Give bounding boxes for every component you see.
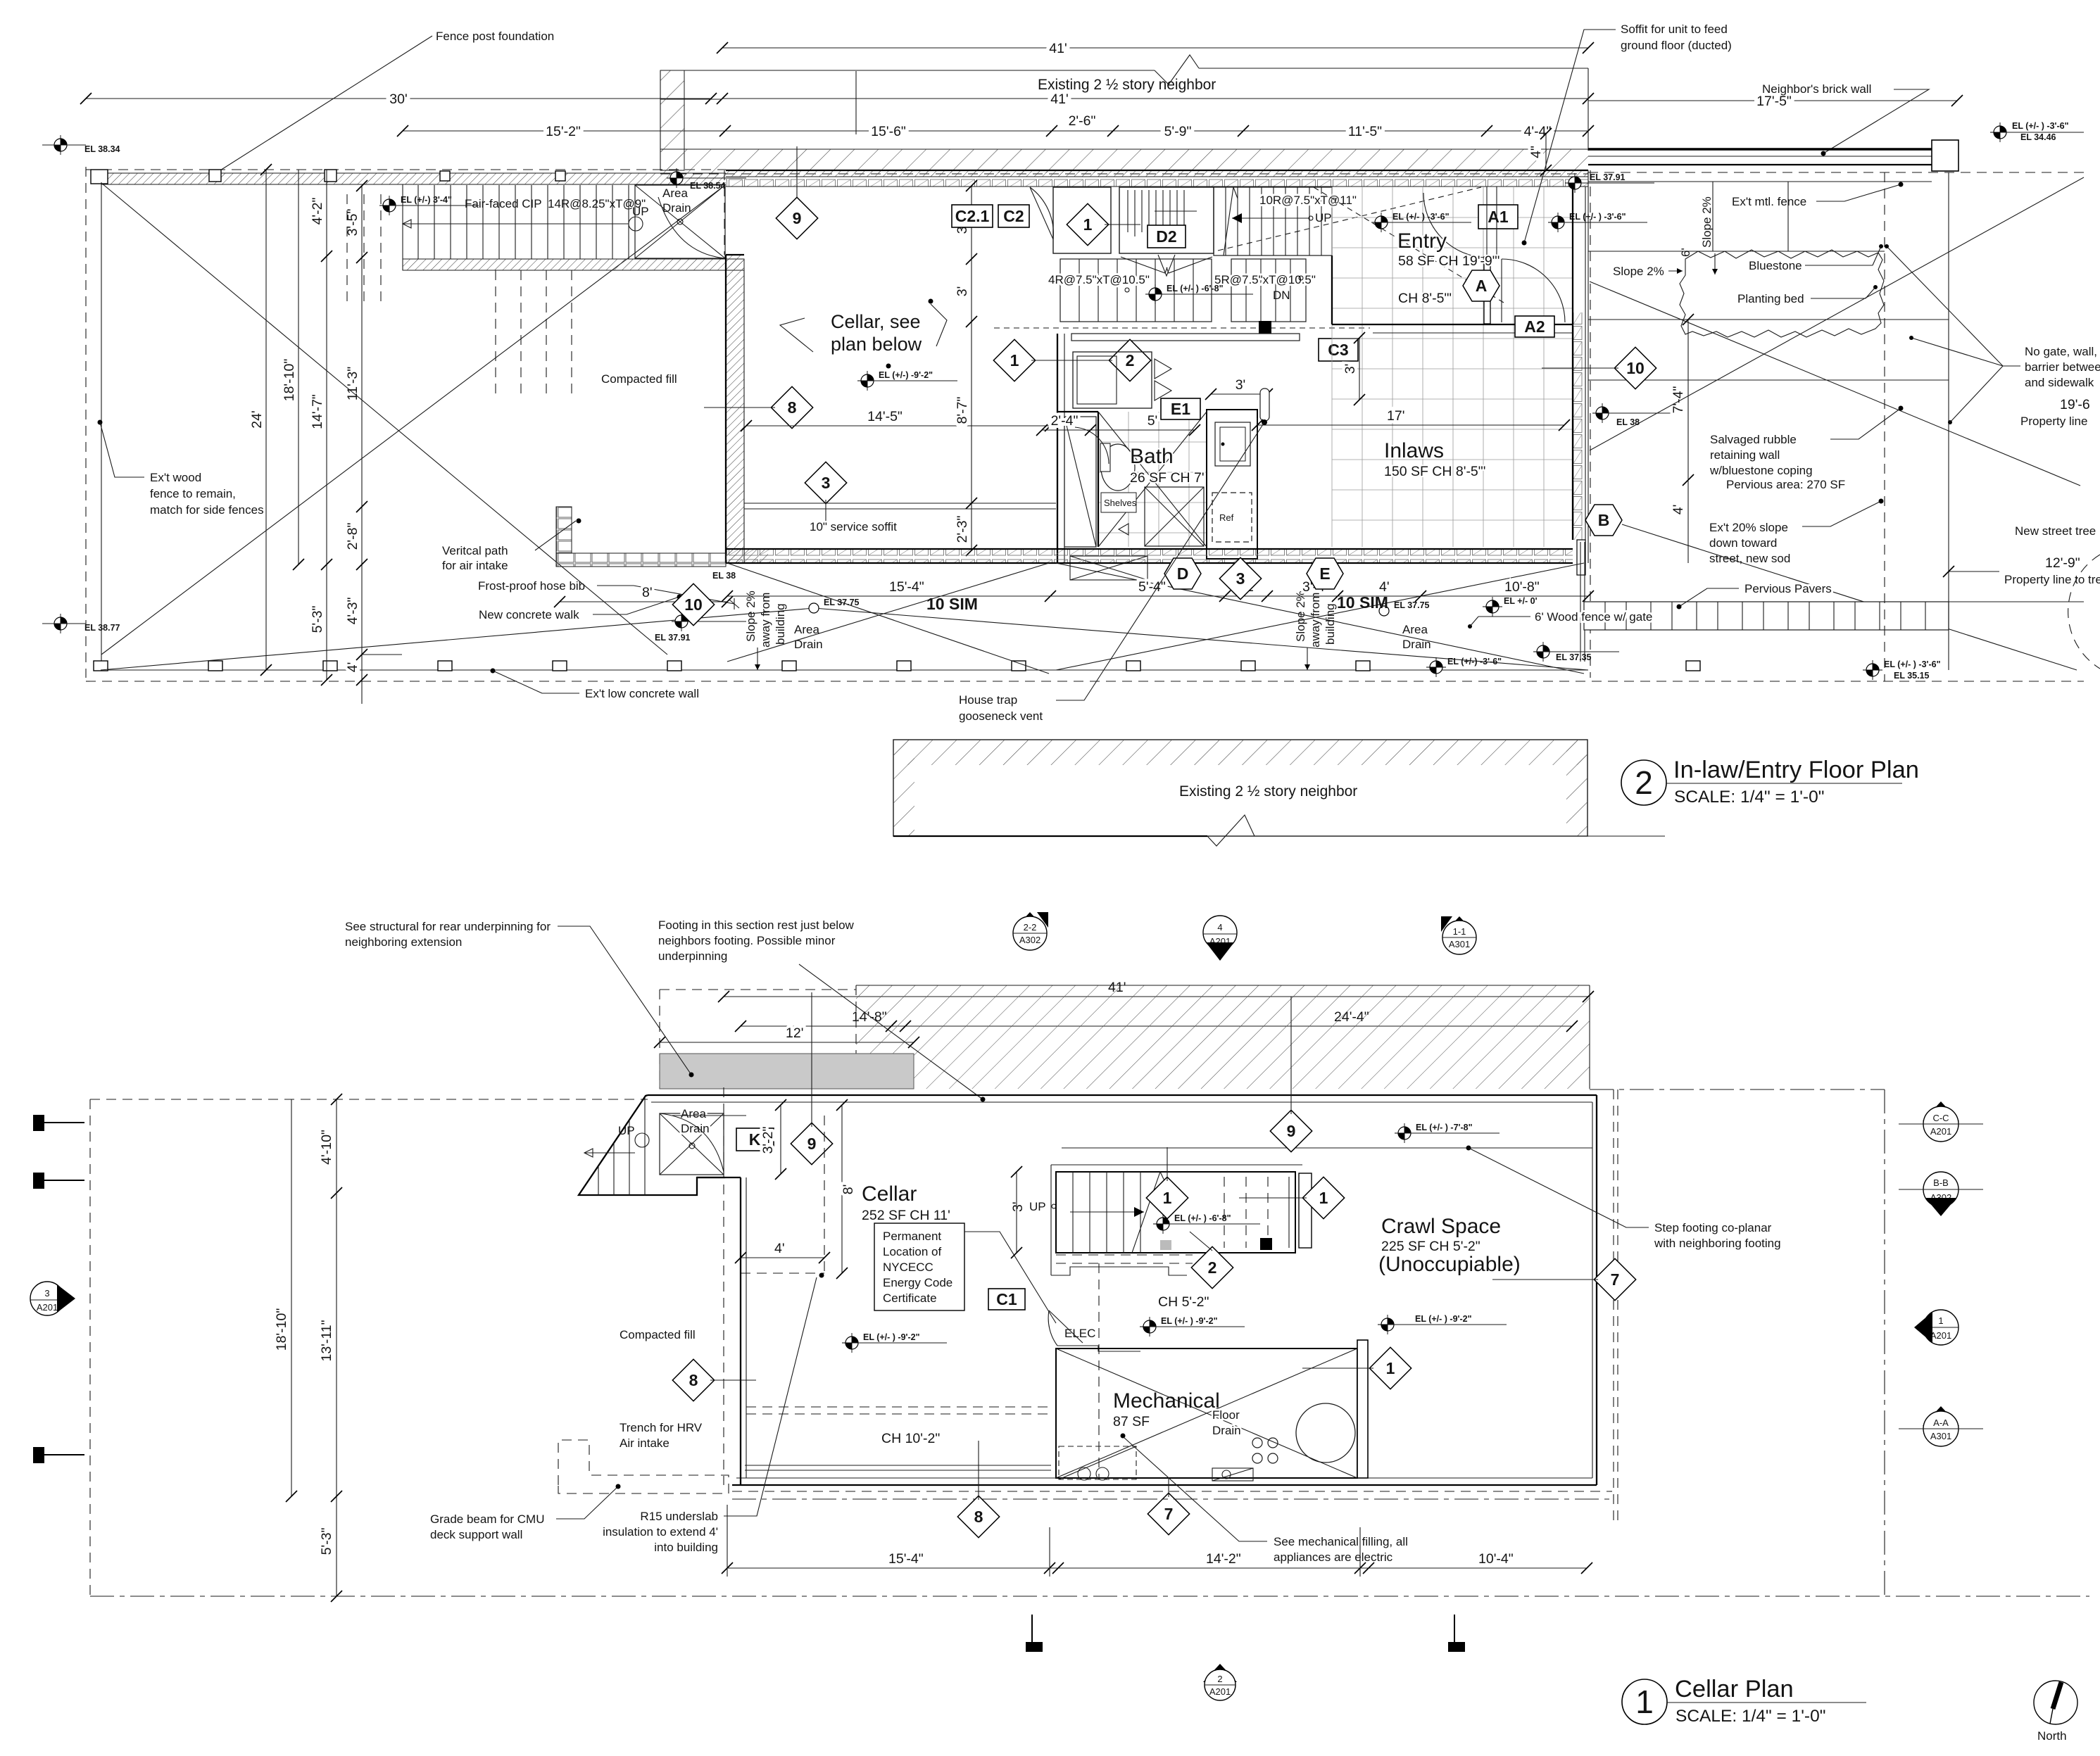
entry labels — [1397, 229, 1499, 306]
svg-text:Area: Area — [681, 1107, 706, 1120]
svg-text:10: 10 — [684, 595, 703, 614]
svg-text:87 SF: 87 SF — [1113, 1414, 1150, 1429]
svg-text:Crawl Space: Crawl Space — [1381, 1215, 1501, 1238]
svg-text:4': 4' — [774, 1241, 785, 1256]
svg-text:Certificate: Certificate — [883, 1291, 937, 1305]
1 diamonds at stair — [1146, 1147, 1188, 1219]
3 diamond marker — [805, 462, 846, 521]
north yard wall strip — [101, 173, 726, 184]
frost-proof hose bib label — [478, 579, 739, 609]
svg-text:A301: A301 — [1930, 1431, 1951, 1441]
svg-text:House trap: House trap — [959, 693, 1017, 707]
svg-text:11'-5": 11'-5" — [1348, 124, 1382, 139]
svg-text:4: 4 — [1217, 922, 1222, 933]
svg-text:A: A — [1476, 277, 1488, 295]
8 diamond cellar — [672, 1359, 756, 1401]
svg-text:EL 37.91: EL 37.91 — [1590, 172, 1626, 182]
R15 label — [603, 1277, 817, 1554]
svg-text:4": 4" — [1528, 146, 1544, 158]
svg-text:Pervious area: 270 SF: Pervious area: 270 SF — [1726, 478, 1845, 491]
svg-text:A201: A201 — [1209, 1686, 1231, 1697]
svg-text:Veritcal path: Veritcal path — [442, 544, 508, 557]
svg-text:7: 7 — [1164, 1505, 1174, 1523]
svg-text:EL 37.35: EL 37.35 — [1556, 652, 1592, 662]
bath / closet walls — [1057, 334, 1300, 580]
EL -6'-8 stair — [1153, 1213, 1260, 1234]
EL benchmarks entry — [1371, 212, 1471, 232]
entry stair trapezoid (bottom plan) — [579, 1095, 725, 1195]
svg-text:15'-2": 15'-2" — [546, 124, 581, 139]
svg-text:D2: D2 — [1156, 227, 1176, 246]
kitchen tall unit + Ref — [1207, 410, 1257, 559]
svg-text:CH 10'-2": CH 10'-2" — [881, 1431, 940, 1446]
svg-text:EL 38: EL 38 — [712, 571, 736, 581]
no gate label — [1885, 244, 2100, 424]
svg-text:Property line to tree bed: Property line to tree bed — [2004, 573, 2100, 586]
svg-text:match for side fences: match for side fences — [150, 503, 264, 517]
svg-text:Permanent: Permanent — [883, 1230, 941, 1243]
svg-text:2: 2 — [1217, 1674, 1222, 1684]
svg-text:Bath: Bath — [1130, 445, 1174, 468]
svg-text:15'-4": 15'-4" — [889, 579, 924, 595]
svg-text:10" service soffit: 10" service soffit — [810, 520, 897, 533]
svg-text:E: E — [1319, 564, 1330, 583]
svg-text:Drain: Drain — [681, 1122, 710, 1135]
dashed offset rect + 4' 8' dims — [735, 1099, 856, 1279]
svg-text:Mechanical: Mechanical — [1113, 1389, 1220, 1413]
svg-text:Drain: Drain — [662, 201, 691, 215]
svg-text:building: building — [774, 603, 787, 645]
svg-text:New concrete walk: New concrete walk — [479, 608, 579, 621]
bath fixtures: toilet + shower X — [1075, 412, 1207, 547]
svg-text:EL 38.54: EL 38.54 — [690, 181, 726, 191]
grade beam label — [430, 1484, 621, 1542]
closet C2.1 / C2 boxes — [952, 205, 1029, 227]
svg-text:street, new sod: street, new sod — [1709, 552, 1790, 565]
svg-text:1: 1 — [1083, 215, 1093, 234]
svg-text:3: 3 — [44, 1288, 49, 1299]
svg-text:EL 37.75: EL 37.75 — [1394, 600, 1430, 610]
svg-text:Slope 2%: Slope 2% — [1294, 590, 1307, 642]
svg-text:41': 41' — [1050, 91, 1068, 107]
svg-text:A2: A2 — [1524, 317, 1545, 336]
interior vertical dim chain (3'-6 / 3' / 8'-7 / 2'-3) — [955, 180, 977, 556]
existing neighbor building outline (top) — [660, 55, 1588, 170]
svg-text:NYCECC: NYCECC — [883, 1261, 933, 1274]
svg-text:Area: Area — [662, 187, 688, 200]
svg-text:3': 3' — [1343, 364, 1358, 374]
hexagon markers D / 3 / E — [1164, 558, 1201, 589]
svg-text:In-law/Entry Floor Plan: In-law/Entry Floor Plan — [1673, 757, 1919, 783]
svg-text:SCALE: 1/4" = 1'-0": SCALE: 1/4" = 1'-0" — [1674, 788, 1824, 807]
svg-text:ELEC: ELEC — [1064, 1327, 1095, 1340]
svg-text:8: 8 — [788, 398, 797, 417]
svg-text:CH 5'-2": CH 5'-2" — [1158, 1294, 1209, 1310]
svg-text:EL 37.91: EL 37.91 — [655, 633, 691, 643]
svg-text:24': 24' — [249, 410, 265, 428]
exterior concrete stair (Fair-faced CIP) — [403, 184, 744, 270]
svg-text:EL (+/-) 3'-4": EL (+/-) 3'-4" — [401, 195, 452, 205]
svg-text:with neighboring footing: with neighboring footing — [1654, 1237, 1781, 1250]
building south wall band — [726, 549, 1573, 563]
svg-text:Cellar: Cellar — [862, 1182, 917, 1206]
wall btwn stair zone and inlaws — [1331, 255, 1333, 324]
svg-text:C1: C1 — [996, 1290, 1017, 1308]
svg-text:10'-4": 10'-4" — [1478, 1551, 1514, 1567]
svg-text:EL 34.46: EL 34.46 — [2020, 132, 2056, 142]
svg-text:Drain: Drain — [1402, 638, 1431, 651]
svg-text:away from: away from — [1309, 593, 1322, 648]
insulation dashed lines — [746, 1255, 1193, 1414]
svg-text:R15 underslab: R15 underslab — [640, 1510, 718, 1523]
entry south wall — [1332, 324, 1573, 333]
svg-text:C3: C3 — [1328, 341, 1348, 359]
svg-text:Ex't low concrete wall: Ex't low concrete wall — [585, 687, 699, 700]
svg-text:7'-4": 7'-4" — [1671, 386, 1686, 414]
7 diamond bottom — [1148, 1478, 1189, 1535]
svg-text:EL 38: EL 38 — [1616, 417, 1640, 427]
svg-text:A-A: A-A — [1933, 1417, 1949, 1428]
building north wall band: hatch + glass block — [726, 170, 1588, 187]
EL -9'-2 cellar — [842, 1332, 947, 1353]
svg-text:Ref: Ref — [1219, 512, 1234, 523]
svg-text:D: D — [1177, 564, 1189, 583]
A hexagon — [1463, 270, 1499, 301]
1 diamond leader (closet) — [1067, 203, 1140, 245]
svg-text:3': 3' — [1236, 377, 1246, 393]
svg-text:Frost-proof hose bib: Frost-proof hose bib — [478, 579, 585, 593]
svg-text:12'-9": 12'-9" — [2045, 555, 2080, 571]
neighbor's brick wall — [1588, 82, 2084, 172]
svg-text:w/bluestone coping: w/bluestone coping — [1709, 464, 1813, 477]
svg-text:Existing 2 ½ story neighbor: Existing 2 ½ story neighbor — [1179, 783, 1357, 800]
title 1: Cellar Plan — [1622, 1676, 1866, 1726]
svg-text:41': 41' — [1049, 41, 1067, 56]
svg-text:A201: A201 — [1930, 1330, 1951, 1341]
yard horizontal lines — [1588, 182, 1949, 380]
svg-text:UP: UP — [1315, 211, 1332, 225]
closet at head of cellar stair — [1030, 187, 1111, 253]
svg-text:fence to remain,: fence to remain, — [150, 487, 236, 500]
tile grid: entry + inlaws — [1332, 187, 1573, 547]
8 diamond bottom — [957, 1441, 999, 1538]
svg-text:17': 17' — [1387, 408, 1404, 424]
walkway slope diagonals + area drains — [101, 563, 1588, 674]
left yard diagonal X — [101, 183, 667, 655]
dimension row 30' / 41' / 17'-5 — [80, 91, 1963, 109]
dimension row 41' overall — [717, 41, 1594, 56]
svg-text:A301: A301 — [1449, 939, 1470, 949]
svg-text:Ex't wood: Ex't wood — [150, 471, 201, 484]
planting bed jagged outline — [1680, 244, 1884, 337]
cellar opening note — [780, 299, 947, 369]
fence post foundation label — [213, 30, 555, 177]
svg-text:Energy Code: Energy Code — [883, 1276, 952, 1289]
soffit label — [1522, 23, 1732, 246]
svg-text:building: building — [1323, 603, 1337, 645]
svg-text:Cellar, see: Cellar, see — [831, 311, 921, 332]
svg-text:2-2: 2-2 — [1024, 922, 1037, 933]
svg-text:4': 4' — [1379, 579, 1390, 595]
svg-text:A201: A201 — [1930, 1126, 1951, 1137]
svg-text:See structural for rear underp: See structural for rear underpinning for — [345, 920, 551, 933]
svg-text:A302: A302 — [1019, 935, 1040, 945]
svg-text:1: 1 — [1319, 1189, 1328, 1207]
svg-text:EL (+/-) -3'-6": EL (+/-) -3'-6" — [1447, 657, 1502, 667]
svg-text:North: North — [2037, 1729, 2067, 1743]
see mechanical label — [1124, 1437, 1408, 1564]
svg-text:1: 1 — [1010, 351, 1019, 369]
2 diamond below stair — [1190, 1232, 1233, 1289]
9 diamond (crawl) — [1270, 997, 1312, 1152]
svg-text:5'-9": 5'-9" — [1164, 124, 1192, 139]
svg-text:Fence post foundation: Fence post foundation — [436, 30, 554, 43]
svg-text:12': 12' — [786, 1025, 803, 1041]
svg-text:K: K — [749, 1130, 761, 1149]
2/A201 marker bottom — [1203, 1664, 1237, 1700]
8 diamond marker + leader — [704, 386, 813, 428]
svg-text:EL (+/- ) -9'-2": EL (+/- ) -9'-2" — [1415, 1314, 1472, 1324]
CMU deck support wall (left of building) — [556, 507, 726, 567]
south low concrete wall + posts + property dash — [86, 661, 2084, 681]
EL 38.54 benchmark — [667, 168, 746, 191]
svg-text:1: 1 — [1163, 1189, 1172, 1207]
svg-text:Existing 2 ½ story neighbor: Existing 2 ½ story neighbor — [1038, 77, 1216, 93]
svg-text:Pervious Pavers: Pervious Pavers — [1744, 582, 1832, 595]
svg-text:C2.1: C2.1 — [955, 207, 990, 225]
new street tree + tree bed — [1943, 524, 2100, 669]
svg-text:8: 8 — [974, 1508, 983, 1526]
svg-text:E1: E1 — [1171, 400, 1190, 418]
EL markers right bottom — [1483, 596, 1538, 617]
svg-text:ground floor (ducted): ground floor (ducted) — [1621, 39, 1732, 52]
salvaged rubble label — [1709, 406, 1904, 478]
left margin markers bottom plan — [30, 1116, 84, 1463]
svg-text:26 SF CH 7': 26 SF CH 7' — [1130, 470, 1205, 486]
crawl space labels — [1378, 1215, 1521, 1276]
left vertical dims bottom plan — [274, 1094, 342, 1602]
grey slab (rear underpinning) — [660, 1054, 914, 1089]
bath tile grid — [1098, 412, 1207, 547]
slope annotations rotated — [744, 590, 1337, 670]
step footing label — [1469, 1148, 1781, 1250]
west property line + existing wood fence — [85, 167, 87, 678]
svg-text:Slope 2%: Slope 2% — [1700, 196, 1714, 248]
svg-text:Ex't 20% slope: Ex't 20% slope — [1709, 521, 1788, 534]
svg-text:Drain: Drain — [1212, 1424, 1241, 1437]
double doors D2 — [1121, 255, 1212, 276]
svg-text:2'-3": 2'-3" — [955, 516, 970, 543]
svg-text:No gate, wall, or o: No gate, wall, or o — [2025, 345, 2100, 358]
interior stair DN (10R) — [1214, 187, 1357, 255]
ex't 20% slope label — [1709, 499, 1884, 566]
svg-text:Shelves: Shelves — [1104, 498, 1137, 508]
svg-text:into building: into building — [654, 1541, 718, 1554]
building west wall (hatched) — [724, 170, 744, 563]
svg-text:8': 8' — [841, 1185, 856, 1195]
svg-text:Drain: Drain — [794, 638, 823, 651]
pervious pavers strip — [1584, 582, 1949, 630]
neighbor footprint hatch band — [660, 985, 1590, 1089]
svg-text:Grade beam for CMU: Grade beam for CMU — [430, 1512, 545, 1526]
stair surround walls — [1051, 1165, 1302, 1275]
5'-4" / 2' / 3'-4" / 4' / 10'-8" dims — [1050, 579, 1594, 602]
svg-text:EL (+/- ) -9'-2": EL (+/- ) -9'-2" — [863, 1332, 920, 1342]
svg-text:4': 4' — [1671, 505, 1686, 515]
svg-text:Planting bed: Planting bed — [1737, 292, 1804, 305]
dimension row 15'-2 etc — [397, 113, 1594, 139]
svg-text:4': 4' — [345, 662, 360, 673]
svg-text:15'-4": 15'-4" — [888, 1551, 924, 1567]
bottom section cut marks — [1026, 1615, 1464, 1651]
north arrow — [2034, 1681, 2077, 1743]
svg-text:14'-2": 14'-2" — [1206, 1551, 1241, 1567]
svg-text:3': 3' — [1010, 1201, 1026, 1212]
svg-text:EL 38.77: EL 38.77 — [84, 623, 120, 633]
svg-text:EL 37.75: EL 37.75 — [824, 598, 860, 607]
svg-text:away from: away from — [759, 593, 772, 648]
svg-text:neighboring extension: neighboring extension — [345, 935, 462, 949]
svg-text:UP: UP — [1029, 1200, 1046, 1213]
C1 label box — [988, 1289, 1025, 1310]
mid stair block (cellar) — [1056, 1172, 1312, 1253]
svg-text:5'-3": 5'-3" — [319, 1528, 334, 1555]
mechanical room — [1056, 1340, 1368, 1481]
svg-text:2'-6": 2'-6" — [1069, 113, 1096, 129]
vanity cabinet — [1073, 352, 1152, 408]
svg-text:for air intake: for air intake — [442, 559, 508, 572]
svg-text:2: 2 — [1208, 1258, 1217, 1277]
ex't wood fence label — [98, 420, 264, 517]
svg-text:gooseneck vent: gooseneck vent — [959, 709, 1043, 723]
svg-text:EL (+/- ) -3'-6": EL (+/- ) -3'-6" — [1392, 212, 1450, 222]
dashed swing lines entry — [994, 187, 1504, 328]
svg-text:2: 2 — [1635, 764, 1653, 801]
footing label — [658, 918, 986, 1102]
svg-text:B: B — [1598, 511, 1610, 529]
svg-text:Location of: Location of — [883, 1245, 941, 1258]
svg-text:4'-10": 4'-10" — [319, 1130, 334, 1165]
svg-text:3: 3 — [822, 474, 831, 492]
svg-text:Compacted fill: Compacted fill — [620, 1328, 696, 1341]
title 2: In-law/Entry Floor Plan — [1621, 757, 1919, 807]
svg-text:B-B: B-B — [1933, 1177, 1949, 1188]
15'-4" walk dim — [722, 579, 1056, 602]
A1 label box — [1478, 205, 1518, 229]
svg-text:7: 7 — [1611, 1270, 1620, 1289]
svg-text:Floor: Floor — [1212, 1408, 1240, 1422]
svg-text:New street tree: New street tree — [2015, 524, 2096, 538]
svg-text:11'-3": 11'-3" — [345, 367, 360, 400]
svg-text:4'-3": 4'-3" — [345, 598, 360, 625]
neighbor wall hatched column — [660, 70, 684, 170]
setback dashed line — [723, 1087, 724, 1485]
right margin section markers — [1899, 1101, 1983, 1446]
cellar labels — [862, 1182, 950, 1223]
10 diamond right — [1542, 347, 1656, 389]
svg-text:SCALE: 1/4" = 1'-0": SCALE: 1/4" = 1'-0" — [1675, 1707, 1825, 1726]
B hexagon — [1585, 505, 1622, 536]
svg-text:8'-7": 8'-7" — [955, 397, 970, 424]
bottom dashed double — [732, 1491, 1612, 1499]
right yard diagonals — [1590, 177, 2084, 670]
svg-text:EL (+/- ) -3'-6": EL (+/- ) -3'-6" — [2012, 121, 2069, 131]
svg-text:9: 9 — [793, 209, 802, 227]
svg-text:EL (+/- ) -6'-8": EL (+/- ) -6'-8" — [1174, 1213, 1231, 1223]
EL 34.46 benchmark — [1990, 121, 2084, 142]
7 diamond right — [1492, 1258, 1636, 1300]
4' dim right yard — [1671, 480, 1688, 563]
svg-text:14'-5": 14'-5" — [867, 409, 903, 424]
svg-text:17'-5": 17'-5" — [1756, 94, 1792, 109]
svg-text:10R@7.5"xT@11": 10R@7.5"xT@11" — [1259, 194, 1357, 207]
svg-text:Step footing co-planar: Step footing co-planar — [1654, 1221, 1772, 1234]
14'-5" dim — [741, 409, 1056, 431]
svg-text:30': 30' — [389, 91, 407, 107]
svg-text:Air intake: Air intake — [620, 1436, 669, 1450]
svg-text:down toward: down toward — [1709, 536, 1777, 550]
svg-text:CH 8'-5"': CH 8'-5"' — [1398, 291, 1452, 306]
house trap label + leader — [959, 422, 1264, 723]
svg-text:Inlaws: Inlaws — [1384, 439, 1444, 462]
svg-text:EL (+/- ) -3'-6": EL (+/- ) -3'-6" — [1569, 212, 1626, 222]
dashed lines below stair (projection) — [347, 194, 572, 394]
svg-text:Area: Area — [1402, 623, 1428, 636]
fence posts top — [91, 170, 565, 184]
svg-text:Compacted fill: Compacted fill — [601, 372, 677, 386]
bottom dims — [722, 1505, 1592, 1577]
street side lines — [1885, 172, 2084, 681]
EL 37.91 markers — [655, 612, 746, 643]
north property line (dashed) left yard — [86, 169, 726, 170]
svg-text:See mechanical filling, all: See mechanical filling, all — [1274, 1535, 1408, 1548]
svg-text:EL 35.15: EL 35.15 — [1894, 671, 1930, 681]
svg-text:15'-6": 15'-6" — [871, 124, 906, 139]
svg-text:4R@7.5"xT@10.5": 4R@7.5"xT@10.5" — [1048, 273, 1150, 286]
svg-text:Bluestone: Bluestone — [1749, 259, 1802, 272]
svg-text:19'-6: 19'-6 — [2060, 397, 2090, 412]
svg-text:Property line: Property line — [2020, 415, 2087, 428]
crawl space upper line — [1062, 1146, 1592, 1151]
svg-text:neighbors footing. Possible mi: neighbors footing. Possible minor — [658, 934, 836, 947]
left margin EL benchmarks — [42, 135, 120, 155]
svg-text:13'-11": 13'-11" — [319, 1320, 334, 1361]
neighbor party wall hatched strip — [660, 71, 1588, 202]
svg-text:Neighbor's brick wall: Neighbor's brick wall — [1762, 82, 1871, 96]
EL -9'-2" benchmark (cellar void) — [857, 370, 957, 391]
2 diamond + 1 diamond leaders (bath wall) — [1109, 339, 1150, 381]
svg-text:plan below: plan below — [831, 334, 922, 355]
svg-text:deck support wall: deck support wall — [430, 1528, 522, 1541]
property lines bottom plan — [90, 1089, 2089, 1596]
building outline bottom plan — [648, 1089, 1618, 1520]
new concrete walk label — [479, 595, 682, 622]
svg-text:6' Wood fence w/ gate: 6' Wood fence w/ gate — [1535, 610, 1652, 624]
see structural label — [345, 920, 694, 1078]
svg-text:UP: UP — [618, 1124, 635, 1137]
front door + arcs — [1423, 187, 1565, 324]
ex't mtl fence — [1588, 182, 1932, 208]
svg-text:C-C: C-C — [1932, 1113, 1949, 1123]
stair landing with area drain X — [635, 185, 725, 258]
svg-text:252 SF CH 11': 252 SF CH 11' — [862, 1208, 950, 1223]
top dims — [654, 980, 1594, 1048]
svg-text:10: 10 — [1626, 359, 1645, 377]
svg-text:EL (+/- ) -3'-6": EL (+/- ) -3'-6" — [1884, 659, 1941, 669]
svg-text:insulation to extend 4': insulation to extend 4' — [603, 1525, 718, 1539]
svg-text:14'-7": 14'-7" — [310, 394, 325, 429]
svg-text:retaining wall: retaining wall — [1710, 448, 1780, 462]
